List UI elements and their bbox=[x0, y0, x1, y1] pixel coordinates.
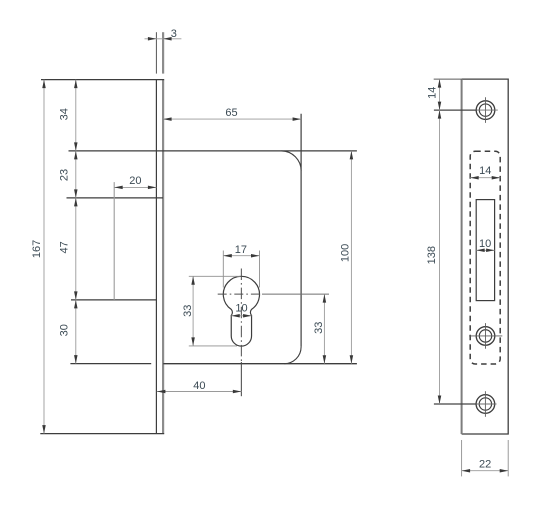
dimension 14 dashed region width bbox=[470, 177, 500, 179]
dimension 167 overall height bbox=[43, 80, 45, 434]
plate top corner extension line bbox=[434, 78, 462, 80]
svg-text:14: 14 bbox=[427, 87, 439, 99]
cylinder axis extension line to 33 dim bbox=[262, 293, 329, 295]
dimension 22 plate width bbox=[461, 440, 463, 476]
lock case right edge bbox=[300, 114, 302, 347]
dimension 33 axis to case bottom bbox=[323, 294, 325, 364]
dimension 10 latch hole width bbox=[476, 249, 494, 251]
svg-text:33: 33 bbox=[313, 322, 325, 334]
svg-text:17: 17 bbox=[235, 244, 247, 256]
faceplate bottom edge line bbox=[40, 433, 164, 435]
feature line at 57mm level bbox=[67, 197, 164, 199]
cylinder centerline extension below case (40 dim extension) bbox=[240, 362, 242, 396]
dimension 33 cylinder height bbox=[189, 275, 241, 277]
dimension 14 top hole offset bbox=[439, 79, 441, 110]
screw hole 3 horizontal crosshair bbox=[476, 403, 496, 405]
screw hole 2 horizontal crosshair bbox=[469, 335, 502, 337]
svg-text:167: 167 bbox=[31, 240, 43, 258]
lock case top edge line (with extensions) bbox=[69, 150, 357, 152]
svg-text:22: 22 bbox=[479, 459, 491, 471]
svg-text:138: 138 bbox=[426, 246, 438, 264]
svg-text:23: 23 bbox=[58, 169, 70, 181]
dimension 3 faceplate thickness bbox=[155, 32, 157, 73]
svg-text:14: 14 bbox=[479, 165, 491, 177]
latch hole rectangle bbox=[476, 200, 494, 301]
lock case top-right corner arc bbox=[281, 151, 301, 171]
svg-text:33: 33 bbox=[182, 305, 194, 317]
euro cylinder cutout profile bbox=[223, 276, 259, 346]
lock case bottom edge line (with right extension) bbox=[163, 363, 357, 365]
faceplate front edge (side view) bbox=[155, 80, 157, 434]
lock case bottom-right corner arc bbox=[284, 347, 301, 364]
dimension 65 case depth bbox=[163, 118, 301, 120]
dimension 138 hole spacing bbox=[439, 110, 441, 404]
dimension 40 backset bbox=[157, 391, 241, 393]
cylinder horizontal centerline bbox=[218, 293, 262, 295]
svg-text:3: 3 bbox=[171, 28, 177, 40]
svg-text:10: 10 bbox=[235, 303, 247, 315]
dashed cutout region (rounded) bbox=[470, 151, 500, 364]
svg-text:10: 10 bbox=[479, 238, 491, 250]
dimension 17 cylinder diameter bbox=[222, 251, 224, 288]
svg-text:20: 20 bbox=[129, 175, 141, 187]
feature line at 104mm level bbox=[71, 299, 156, 301]
screw hole 2 bbox=[476, 327, 495, 346]
svg-text:47: 47 bbox=[58, 241, 70, 253]
screw hole 1 vertical crosshair bbox=[485, 97, 487, 123]
svg-text:34: 34 bbox=[58, 108, 70, 120]
lock case bottom left extension line bbox=[70, 363, 151, 365]
dimension 100 case height bbox=[350, 151, 352, 364]
svg-text:65: 65 bbox=[225, 107, 237, 119]
dimension 10 cylinder slot width bbox=[231, 315, 251, 317]
dimension 20 bbox=[114, 186, 156, 188]
screw hole 1 horizontal crosshair bbox=[476, 109, 497, 111]
faceplate top edge line bbox=[41, 79, 164, 81]
strike plate left edge (thick gray) bbox=[461, 79, 463, 434]
backset 20 feature line (vertical) bbox=[113, 182, 115, 300]
dimension chain 34 23 47 30 bbox=[75, 80, 77, 364]
svg-text:100: 100 bbox=[340, 244, 352, 262]
faceplate back edge (thick gray) bbox=[162, 80, 164, 434]
strike plate outline bbox=[462, 79, 509, 434]
screw hole 1 horizontal extension line to 138 dim bbox=[434, 109, 477, 111]
screw hole 1 bbox=[476, 101, 495, 120]
cylinder vertical centerline bbox=[240, 269, 242, 363]
svg-text:30: 30 bbox=[58, 324, 70, 336]
screw hole 3 vertical crosshair bbox=[484, 391, 486, 417]
svg-text:40: 40 bbox=[193, 380, 205, 392]
screw hole 3 horizontal extension line to 138 dim bbox=[434, 403, 476, 405]
screw hole 3 bbox=[476, 395, 495, 414]
screw hole 2 vertical crosshair bbox=[485, 323, 487, 349]
